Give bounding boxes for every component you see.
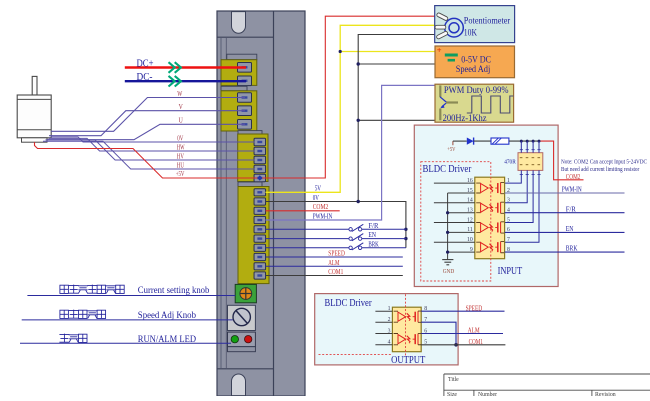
RUN/ALM LED indicators [228,332,256,352]
svg-text:COM1: COM1 [469,339,483,346]
svg-text:15: 15 [467,188,473,194]
BLDC Driver dashed boundary (input) [421,162,491,281]
opto cell 3 [476,222,504,233]
svg-text:Current setting knob: Current setting knob [138,285,210,296]
wire HW [49,138,255,151]
svg-text:ALM: ALM [328,260,339,267]
svg-text:2: 2 [388,317,391,323]
branch 5V to speed-adj + [340,51,440,53]
svg-text:200Hz-1Khz: 200Hz-1Khz [443,114,487,124]
legend line 3: RUN/ALM LED [59,334,87,343]
hall sensor terminal block P3 [238,131,268,182]
wire PWM-IN [266,85,440,220]
opto IC U1 [475,177,505,259]
svg-text:PWM-IN: PWM-IN [562,187,582,194]
branch 0V to PWM emitter [358,119,440,121]
switch F/R [266,224,406,231]
svg-text:0V: 0V [313,195,319,202]
svg-text:ALM: ALM [468,328,480,335]
svg-text:Revision: Revision [595,392,616,396]
resistor network RN1 470R [518,153,543,171]
svg-text:12: 12 [467,217,473,223]
svg-text:+: + [437,45,442,55]
svg-text:11: 11 [467,227,473,233]
motor terminal block P2 (W V U) [221,86,257,131]
svg-text:Title: Title [448,377,459,383]
wire +5V hall (red, runs up to potentiometer) [35,16,435,178]
wire U [47,124,245,139]
junction dot 5V [339,50,342,53]
svg-text:U: U [179,117,184,125]
svg-text:HU: HU [177,162,184,169]
IC left pin wires (anodes 16,14,12,10) [434,183,475,242]
svg-text:But need add current limiting: But need add current limiting resistor [561,166,640,173]
BLDC driver unit body [217,11,305,396]
svg-text:F/R: F/R [368,223,378,230]
title block [444,374,650,396]
svg-text:13: 13 [467,208,473,214]
wire 0V riser to pot [358,35,435,202]
svg-text:COM2: COM2 [566,174,581,181]
diode D1 [467,138,474,145]
wire pin7 to COM1 [421,322,456,345]
svg-text:BLDC Driver: BLDC Driver [423,164,472,175]
branch 0V to battery minus [358,62,451,65]
junction diamond +5V terminal [257,175,262,180]
speed adj source box [435,45,515,78]
svg-text:9: 9 [470,247,473,253]
svg-text:Number: Number [478,392,497,396]
svg-text:INPUT: INPUT [498,266,523,277]
bus junction dots [520,140,541,143]
IC pin numbers [467,178,510,253]
current setting knob RV1 [235,284,256,302]
wire fuse to bus [509,140,539,142]
svg-text:5V: 5V [315,186,321,193]
svg-text:Potentiometer: Potentiometer [464,15,511,26]
svg-text:EN: EN [368,232,376,239]
DC- wire [125,80,246,82]
svg-text:1: 1 [507,178,510,184]
svg-text:BRK: BRK [566,246,578,253]
svg-text:+5V: +5V [447,147,456,153]
svg-text:14: 14 [467,198,473,204]
svg-text:HW: HW [177,145,185,152]
wire COM1 [266,275,403,277]
wire COM1 out [421,344,505,346]
svg-text:+5V: +5V [176,171,185,178]
potentiometer box [435,6,515,43]
svg-text:BRK: BRK [368,241,378,248]
svg-text:COM1: COM1 [328,269,343,276]
svg-text:1: 1 [388,306,391,312]
PWM transistor Q1 [440,85,458,120]
wire W [51,98,245,132]
svg-text:Size: Size [447,392,457,396]
IC cathode bracket to GND [446,193,475,260]
wire V [49,111,245,136]
opto cell out2 [394,334,422,345]
RN bottom leads to IC pins 1,3,5,7 [505,170,541,242]
svg-text:HV: HV [177,154,184,161]
wire 0V hall [51,137,255,142]
DC+ wire [125,66,246,68]
DC- connector chevrons [169,76,181,87]
legend line 1: current setting knob [60,285,124,294]
svg-text:10: 10 [467,237,473,243]
svg-text:4: 4 [388,340,391,346]
svg-text:3: 3 [388,328,391,334]
svg-text:SPEED: SPEED [328,251,345,258]
svg-text:BLDC Driver: BLDC Driver [325,298,373,309]
opto cell out1 [394,311,422,322]
wire 5V (yellow) [266,25,435,192]
wire 0V (dark) with switch-common bracket [266,202,406,248]
svg-text:10K: 10K [464,28,477,39]
ground symbol GND [442,260,455,275]
speed adj knob RV2 [228,305,256,330]
opto cell 4 [476,242,504,253]
switch EN [266,234,406,241]
svg-text:7: 7 [507,237,510,243]
PWM square wave [467,96,514,113]
U2 left pin wires [375,311,392,345]
+5V bus wire [453,140,467,142]
INPUT interface box [414,125,558,286]
wire diode to fuse [474,140,491,142]
BLDC Driver dashed boundary (output) [319,294,406,355]
svg-text:Note: COM2 Can accept Input 5-: Note: COM2 Can accept Input 5-24VDC [561,159,647,166]
svg-text:SPEED: SPEED [466,305,483,312]
svg-text:PWM Duty 0-99%: PWM Duty 0-99% [444,86,509,96]
wire HU [43,141,255,169]
COM2 feed wire (red) [539,141,584,180]
wire ALM out [421,333,503,335]
wire HV [46,140,255,160]
svg-text:V: V [179,103,184,111]
svg-text:Speed Adj: Speed Adj [456,64,491,75]
svg-text:COM2: COM2 [313,204,329,211]
svg-text:5: 5 [507,217,510,223]
svg-text:F/R: F/R [566,206,576,213]
wire ALM [266,265,403,267]
junction dots on 0V net [357,62,408,240]
opto IC U2 [392,307,421,352]
svg-text:470R: 470R [504,159,516,165]
RN top leads [520,141,541,153]
svg-text:PWM-IN: PWM-IN [313,213,333,220]
OUTPUT interface box [315,294,458,365]
power terminal block P1 (DC+/DC-) [221,54,257,85]
svg-text:W: W [177,90,182,98]
svg-text:OUTPUT: OUTPUT [391,355,426,366]
legend line 2: speed adj knob [60,310,106,319]
opto cell 1 [476,182,504,193]
INPUT right-side signal wires [505,192,625,194]
U2 pin numbers [388,306,428,346]
PWM source box [435,84,514,122]
svg-text:3: 3 [507,198,510,204]
svg-text:0V: 0V [177,136,183,143]
svg-text:DC+: DC+ [137,57,154,69]
svg-text:DC-: DC- [137,71,153,83]
DC+ connector chevrons [169,62,181,73]
wire SPEED [266,256,403,258]
wire COM2 [266,210,340,212]
switch BRK [266,243,406,250]
control signal terminal block P4 [238,182,269,284]
fusible resistor F1 [491,138,509,144]
BLDC motor M1 [17,76,51,142]
note text [561,159,647,173]
+5V power stub [447,141,456,153]
svg-text:GND: GND [443,269,455,275]
svg-text:16: 16 [467,178,473,184]
opto cell 2 [476,202,504,213]
wire SPEED out [421,310,504,312]
svg-text:EN: EN [566,226,574,233]
